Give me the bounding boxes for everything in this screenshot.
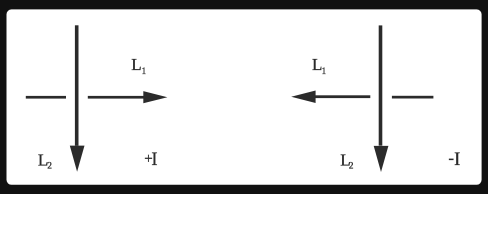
wire (right arrow shaft) bbox=[315, 95, 370, 98]
arrowhead right bbox=[143, 91, 167, 103]
arrowhead left bbox=[291, 91, 315, 104]
svg-text:I: I bbox=[151, 150, 157, 170]
svg-text:I: I bbox=[454, 150, 460, 170]
arrowhead down-left bbox=[70, 146, 85, 172]
svg-text:2: 2 bbox=[349, 161, 354, 171]
svg-text:1: 1 bbox=[142, 66, 147, 76]
wire R (right vertical line) bbox=[379, 25, 383, 145]
wire (left arrow shaft) bbox=[88, 96, 144, 99]
arrowhead down-right bbox=[374, 146, 389, 172]
wire (left dash segment) bbox=[26, 96, 66, 99]
svg-text:L: L bbox=[131, 55, 141, 74]
wire L (left vertical line) bbox=[75, 25, 79, 145]
svg-text:1: 1 bbox=[322, 66, 327, 76]
svg-text:2: 2 bbox=[47, 161, 52, 171]
wire (right dash segment) bbox=[392, 96, 434, 99]
